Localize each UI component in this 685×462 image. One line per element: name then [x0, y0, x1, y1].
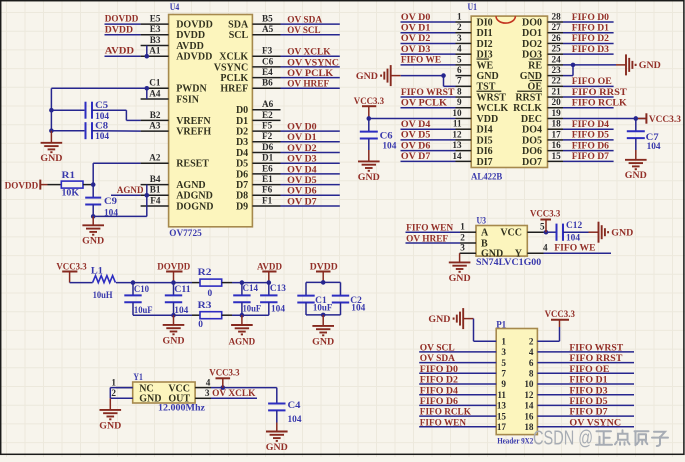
svg-text:1: 1: [501, 336, 506, 346]
svg-text:C6: C6: [262, 56, 274, 66]
svg-text:FIFO D0: FIFO D0: [572, 12, 609, 23]
svg-text:D7: D7: [236, 180, 248, 191]
wire: [70, 282, 93, 284]
pin 10: [524, 379, 534, 389]
wire: [401, 150, 456, 152]
wire: [391, 75, 444, 77]
svg-text:GND: GND: [481, 249, 503, 260]
svg-text:1: 1: [460, 222, 465, 232]
svg-text:2: 2: [111, 388, 116, 398]
net label FIFO_D2: [420, 375, 458, 386]
pin 12: [524, 390, 534, 400]
svg-text:10uF: 10uF: [243, 305, 262, 315]
wire: [401, 96, 456, 98]
inductor L1 10uH: [91, 267, 116, 301]
net label OV_D0: [401, 12, 431, 23]
wire: [401, 128, 456, 130]
ground: [616, 54, 661, 75]
pin E4 (PCLK): [220, 67, 280, 84]
svg-text:GND: GND: [358, 172, 380, 183]
svg-text:D4: D4: [236, 148, 248, 159]
pin 26 (DO2): [522, 33, 563, 50]
connector P1 Header 9X2: [496, 319, 537, 445]
net label OV_PCLK: [401, 98, 447, 109]
svg-text:C6: C6: [380, 132, 393, 142]
pin 10 (VDD): [452, 108, 498, 125]
wire: [281, 184, 340, 186]
svg-text:AGND: AGND: [229, 336, 256, 347]
wire: [544, 252, 612, 254]
pin B4 (AGND): [141, 174, 206, 191]
pin 2 (DI1): [456, 22, 493, 39]
pin A6 (D0): [236, 99, 281, 116]
svg-text:5: 5: [540, 222, 545, 232]
resistor R2 0: [192, 268, 232, 299]
net label FIFO_D1: [572, 23, 609, 34]
net label FIFO_D3: [569, 385, 607, 396]
power port VCC3.3: [56, 261, 86, 282]
wire: [419, 383, 496, 385]
svg-text:DI4: DI4: [477, 125, 493, 136]
svg-text:OV7725: OV7725: [169, 228, 202, 239]
wire: [563, 231, 589, 233]
pin 4 (VCC): [168, 377, 211, 394]
net label FIFO_D7: [572, 151, 609, 162]
svg-text:FIFO D6: FIFO D6: [572, 140, 609, 151]
junction: [367, 116, 372, 121]
wire: [281, 23, 340, 25]
svg-text:DI2: DI2: [477, 39, 493, 50]
pin F4 (DOGND): [141, 195, 214, 212]
pin 16: [524, 411, 534, 421]
net label OV_D1: [287, 132, 317, 143]
ground AGND: [229, 315, 256, 347]
wire: [281, 194, 340, 196]
svg-text:13: 13: [452, 140, 462, 150]
net label OV_VSYNC: [569, 417, 621, 428]
net label OV_D0: [287, 122, 317, 133]
power port VCC3.3: [209, 367, 239, 387]
pin 3 (OUT): [168, 388, 211, 404]
svg-text:3: 3: [205, 388, 210, 398]
svg-text:4: 4: [206, 377, 211, 387]
svg-text:17: 17: [552, 129, 562, 139]
IC U1 AL422B FIFO: [452, 2, 563, 183]
svg-text:17: 17: [497, 422, 507, 432]
wire: [563, 42, 614, 44]
wire: [537, 351, 634, 353]
svg-text:E1: E1: [262, 174, 273, 184]
pin 13: [497, 401, 507, 411]
svg-text:GND: GND: [82, 236, 104, 247]
svg-text:FSIN: FSIN: [176, 94, 200, 105]
wire: [401, 53, 456, 55]
svg-text:A5: A5: [262, 24, 274, 34]
net label OV_D6: [287, 186, 317, 197]
pin 15: [497, 411, 507, 421]
svg-text:A3: A3: [149, 121, 161, 131]
net label FIFO_WEN: [420, 417, 466, 428]
svg-text:OV D1: OV D1: [401, 23, 431, 34]
svg-text:VCC: VCC: [500, 228, 522, 239]
svg-text:B4: B4: [150, 174, 161, 184]
wire: [537, 415, 634, 417]
pin 28 (DO0): [522, 11, 563, 28]
svg-text:22: 22: [552, 76, 562, 86]
svg-text:6: 6: [529, 358, 534, 368]
net label OV_VSYNC: [287, 57, 339, 68]
svg-text:GND: GND: [428, 314, 450, 325]
pin D1 (D5): [236, 153, 281, 170]
svg-text:10: 10: [452, 108, 462, 118]
svg-text:WRST: WRST: [477, 92, 507, 103]
svg-text:DO7: DO7: [522, 157, 542, 168]
net label FIFO_RCLK: [420, 407, 471, 418]
svg-text:DOGND: DOGND: [176, 201, 213, 212]
svg-text:R2: R2: [198, 268, 212, 278]
ground: [589, 222, 634, 243]
svg-text:DO1: DO1: [522, 28, 542, 39]
junction: [321, 313, 326, 318]
svg-text:OV D3: OV D3: [401, 44, 431, 55]
capacitor C8 104: [86, 122, 110, 143]
wire: [419, 372, 496, 374]
pin 17 (DO5): [522, 129, 563, 146]
wire: [232, 282, 269, 284]
svg-text:E4: E4: [262, 67, 273, 77]
wire: [281, 205, 340, 207]
wire: [419, 426, 496, 428]
svg-text:GND: GND: [99, 420, 121, 431]
svg-text:20: 20: [552, 97, 562, 107]
svg-text:VCC3.3: VCC3.3: [545, 309, 575, 320]
junction: [544, 230, 549, 235]
wire: [401, 139, 456, 141]
wire: [92, 130, 141, 132]
svg-text:OV D7: OV D7: [401, 151, 431, 162]
junction: [171, 313, 176, 318]
svg-text:DI6: DI6: [477, 146, 493, 157]
wire: [544, 231, 557, 233]
junction: [171, 280, 176, 285]
wire: [563, 150, 614, 152]
power port AVDD: [257, 261, 282, 282]
wire: [563, 117, 646, 119]
pin 14: [524, 401, 534, 411]
power port DOVDD: [5, 180, 48, 192]
svg-text:OV D2: OV D2: [401, 33, 431, 44]
net label FIFO_D6: [572, 140, 609, 151]
pin 2 (GND): [111, 388, 161, 404]
ground: [266, 423, 288, 453]
junction: [571, 63, 576, 68]
IC U3 SN74LVC1G00 NAND gate: [460, 216, 548, 268]
svg-text:FIFO D3: FIFO D3: [572, 44, 609, 55]
capacitor C2 104: [332, 282, 366, 315]
wire: [281, 55, 340, 57]
net label FIFO_WEN: [406, 223, 453, 234]
wire: [401, 160, 456, 162]
svg-text:B6: B6: [262, 78, 273, 88]
svg-text:GND: GND: [625, 170, 647, 181]
svg-text:10K: 10K: [62, 188, 80, 198]
svg-text:OV D4: OV D4: [401, 119, 431, 130]
power port VCC3.3: [354, 96, 384, 119]
junction: [49, 108, 54, 113]
svg-text:DO5: DO5: [522, 135, 542, 146]
svg-text:C1: C1: [149, 78, 161, 88]
pin 11: [497, 390, 506, 400]
pin B1 (ADGND): [141, 185, 213, 202]
wire: [50, 88, 52, 130]
svg-text:SDA: SDA: [228, 20, 249, 31]
svg-text:HREF: HREF: [220, 84, 248, 95]
svg-text:D8: D8: [236, 191, 248, 202]
wire: [306, 281, 341, 283]
wire: [281, 130, 340, 132]
net label OV_D2: [287, 143, 317, 154]
svg-text:8: 8: [529, 369, 534, 379]
wire: [419, 415, 496, 417]
junction: [145, 193, 150, 198]
svg-text:A2: A2: [149, 153, 161, 163]
junction: [131, 280, 136, 285]
svg-text:16: 16: [552, 140, 562, 150]
junction: [49, 128, 54, 133]
net label OV_D6: [401, 140, 431, 151]
svg-text:DO2: DO2: [522, 39, 542, 50]
svg-text:OV D0: OV D0: [401, 12, 431, 23]
pin 14 (DI7): [452, 151, 492, 168]
svg-text:D6: D6: [236, 169, 248, 180]
pin F1 (D9): [236, 195, 281, 212]
pin E1 (D7): [236, 174, 281, 191]
junction: [145, 86, 150, 91]
wire: [369, 117, 456, 119]
svg-text:C10: C10: [134, 285, 149, 295]
wire: [281, 34, 340, 36]
power port DOVDD: [157, 261, 190, 282]
net label DOVDD: [105, 14, 139, 25]
svg-text:B1: B1: [150, 185, 161, 195]
svg-text:5: 5: [457, 54, 462, 64]
wire: [306, 314, 341, 316]
pin F5 (D2): [236, 121, 281, 138]
net label OV_D4: [401, 119, 431, 130]
net label FIFO_D0: [420, 364, 458, 375]
net label AVDD: [105, 46, 134, 57]
pin 13 (DI6): [452, 140, 492, 157]
wire: [105, 23, 141, 25]
net label OV_XCLK: [287, 47, 331, 58]
svg-text:DO0: DO0: [522, 17, 542, 28]
svg-text:104: 104: [95, 112, 109, 122]
svg-text:1: 1: [111, 377, 116, 387]
wire: [281, 152, 340, 154]
svg-text:VCC3.3: VCC3.3: [209, 367, 239, 378]
pin 4: [529, 347, 534, 357]
wire: [563, 85, 614, 87]
ground: [625, 150, 647, 181]
svg-text:21: 21: [552, 86, 562, 96]
net label FIFO_OE: [572, 76, 612, 87]
junction: [221, 385, 226, 390]
svg-text:DOVDD: DOVDD: [5, 180, 39, 191]
watermark CSDN: [533, 427, 668, 449]
ground: [356, 65, 391, 86]
net label FIFO_RRST: [569, 353, 622, 364]
pin 2 (B): [460, 232, 488, 249]
net label FIFO_RRST: [572, 87, 627, 98]
svg-text:E5: E5: [150, 14, 161, 24]
svg-text:3: 3: [460, 243, 465, 253]
net label FIFO_WE: [554, 243, 596, 254]
net label FIFO_WRST: [401, 87, 455, 98]
svg-text:FIFO WE: FIFO WE: [554, 243, 596, 254]
svg-text:104: 104: [95, 132, 109, 142]
net label OV_XCLK: [212, 388, 256, 399]
net label OV_D7: [401, 151, 431, 162]
svg-text:Header 9X2: Header 9X2: [497, 437, 533, 446]
wire: [401, 21, 456, 23]
svg-text:VCC3.3: VCC3.3: [530, 208, 560, 219]
svg-text:FIFO D2: FIFO D2: [572, 33, 609, 44]
ground: [40, 131, 62, 165]
power port DVDD: [310, 261, 338, 282]
pin 16 (DO6): [522, 140, 563, 157]
wire: [537, 404, 634, 406]
svg-text:AL422B: AL422B: [471, 172, 503, 183]
crystal oscillator Y1 12.000Mhz: [111, 372, 211, 413]
capacitor C7 104: [627, 118, 661, 152]
svg-text:DO4: DO4: [522, 125, 542, 136]
junction: [240, 313, 245, 318]
wire: [563, 21, 614, 23]
pin B2 (VREFN): [141, 110, 212, 127]
pin A2 (RESET): [141, 153, 210, 170]
pin 25 (DO3): [522, 44, 563, 61]
svg-text:2: 2: [529, 336, 534, 346]
svg-text:U4: U4: [170, 2, 180, 13]
wire: [51, 109, 84, 111]
svg-text:VREFN: VREFN: [176, 116, 211, 127]
svg-text:RCLK: RCLK: [513, 103, 542, 114]
wire: [419, 404, 496, 406]
junction: [321, 280, 326, 285]
net label OV_SCL: [287, 25, 321, 36]
pin A1 (ADVDD): [141, 46, 213, 63]
pin 21 (RRST): [515, 86, 563, 103]
capacitor C4 104: [268, 388, 302, 425]
pin E5 (DOVDD): [141, 14, 213, 31]
svg-text:R3: R3: [198, 301, 212, 311]
pin B5 (SDA): [228, 14, 280, 31]
wire: [93, 163, 140, 184]
wire: [406, 242, 461, 244]
pin E2 (D1): [236, 110, 281, 127]
svg-text:VDD: VDD: [477, 114, 499, 125]
pin 1: [501, 336, 506, 346]
capacitor C1 10uF: [297, 282, 332, 315]
net label FIFO_D6: [420, 396, 458, 407]
net label OV_D7: [287, 196, 317, 207]
svg-text:FIFO D5: FIFO D5: [572, 130, 609, 141]
net label OV_PCLK: [287, 68, 333, 79]
svg-text:B2: B2: [150, 110, 161, 120]
svg-text:28: 28: [552, 11, 562, 21]
pin D6 (D4): [236, 142, 281, 159]
wire: [110, 388, 132, 399]
pin 11 (DI4): [453, 119, 493, 136]
svg-text:4: 4: [543, 243, 548, 253]
svg-text:DOVDD: DOVDD: [176, 20, 213, 31]
capacitor C10 10uF: [124, 283, 153, 317]
wire: [232, 314, 269, 316]
svg-text:CSDN @: CSDN @: [533, 427, 593, 449]
pin 6 (GND): [456, 65, 499, 82]
svg-text:23: 23: [552, 65, 562, 75]
svg-text:1: 1: [457, 11, 462, 21]
ground: [428, 308, 463, 329]
pin 17: [497, 422, 507, 432]
net label OV_HREF: [287, 79, 329, 90]
svg-text:OV PCLK: OV PCLK: [401, 98, 447, 109]
pin 24 (RE): [528, 54, 563, 71]
pin 6: [529, 358, 534, 368]
svg-text:ADVDD: ADVDD: [176, 52, 212, 63]
wire: [537, 426, 634, 428]
pin 23 (GND): [520, 65, 563, 82]
pin 2: [529, 336, 534, 346]
pin B6 (HREF): [220, 78, 280, 95]
svg-text:DI0: DI0: [477, 17, 493, 28]
wire: [401, 32, 456, 34]
pin 9: [501, 379, 506, 389]
ground: [449, 253, 471, 284]
svg-text:10uF: 10uF: [313, 303, 333, 313]
wire: [537, 327, 559, 341]
svg-text:AGND: AGND: [176, 180, 205, 191]
net label OV_D4: [287, 164, 317, 175]
pin F2 (D3): [236, 131, 281, 148]
svg-text:PCLK: PCLK: [220, 73, 248, 84]
pin 19 (DEC): [521, 108, 563, 125]
resistor R1 10K: [48, 171, 94, 199]
capacitor C11 104: [165, 283, 191, 317]
wire: [211, 387, 277, 389]
svg-text:WCLK: WCLK: [477, 103, 509, 114]
capacitor C12 104: [557, 221, 583, 244]
wire: [146, 185, 148, 217]
net label FIFO_D7: [569, 407, 607, 418]
pin 4 (DI3): [456, 44, 493, 61]
svg-text:GND: GND: [312, 336, 334, 347]
svg-text:F2: F2: [262, 131, 273, 141]
net label FIFO_D2: [572, 33, 609, 44]
svg-text:OV D5: OV D5: [401, 130, 431, 141]
net label FIFO_RCLK: [572, 98, 627, 109]
pin 5 (VCC): [500, 222, 545, 239]
svg-text:14: 14: [524, 401, 534, 411]
svg-text:104: 104: [288, 415, 302, 425]
wire: [444, 76, 456, 87]
svg-text:DO6: DO6: [522, 146, 542, 157]
svg-text:C14: C14: [243, 284, 259, 294]
wire: [51, 87, 146, 89]
wire: [281, 77, 340, 79]
wire: [464, 319, 497, 342]
svg-text:Y1: Y1: [133, 372, 143, 383]
